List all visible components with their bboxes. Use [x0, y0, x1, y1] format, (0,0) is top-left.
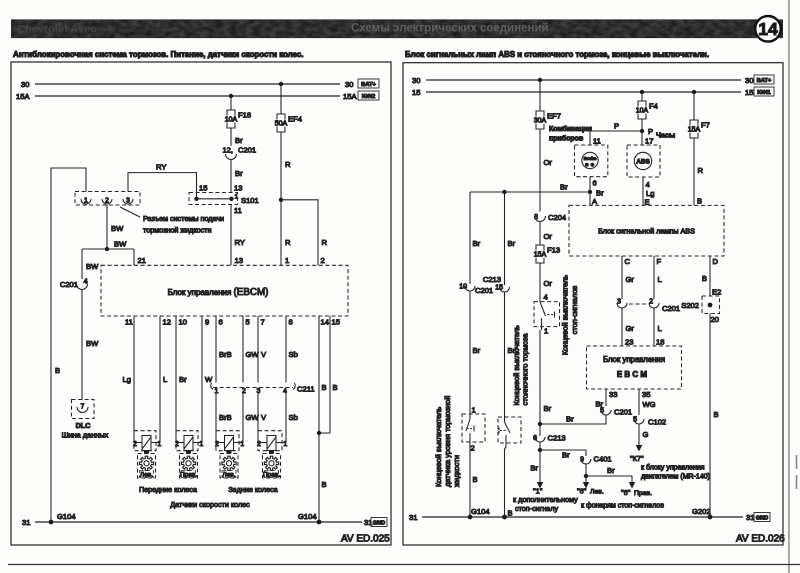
svg-text:Передние колеса: Передние колеса	[139, 485, 197, 494]
svg-text:"К7": "К7"	[630, 454, 644, 463]
svg-text:31: 31	[409, 513, 417, 522]
wire bus15 to F7	[693, 92, 695, 120]
wire fluid switch to G104, B	[470, 442, 478, 517]
svg-text:15A: 15A	[343, 92, 357, 101]
wire to EBCM pin 2, R	[281, 200, 328, 265]
svg-text:GW: GW	[246, 413, 260, 422]
svg-text:Or: Or	[544, 232, 553, 241]
svg-text:L: L	[658, 275, 662, 284]
svg-text:8: 8	[289, 318, 293, 327]
vertical label stop lamp switch	[561, 275, 580, 355]
svg-text:F: F	[657, 257, 662, 266]
svg-text:15A: 15A	[688, 127, 701, 134]
svg-text:BW: BW	[86, 339, 99, 348]
svg-text:R: R	[285, 238, 291, 247]
svg-text:Комбинация: Комбинация	[549, 125, 592, 133]
wire C213-15 to park switch, Br	[505, 293, 516, 418]
callout: Разъем системы подачи тормозной жидкости	[120, 207, 224, 235]
svg-text:15: 15	[412, 88, 420, 97]
IGN2 tag	[358, 91, 379, 100]
svg-text:30A: 30A	[534, 118, 547, 125]
svg-text:B: B	[473, 475, 478, 484]
connector C213 pin 6	[533, 434, 566, 443]
svg-text:W: W	[205, 375, 213, 384]
svg-text:31: 31	[746, 513, 754, 522]
svg-text:тормозной жидкости: тормозной жидкости	[143, 226, 211, 235]
junction bus15 F4	[640, 90, 644, 94]
svg-text:C213: C213	[483, 275, 501, 284]
svg-text:к дополнительному: к дополнительному	[513, 495, 578, 504]
svg-text:C201: C201	[662, 304, 680, 313]
svg-text:G104: G104	[298, 512, 317, 521]
svg-text:L: L	[658, 324, 662, 333]
svg-text:Sb: Sb	[289, 350, 298, 359]
wire EF7 down, Or	[540, 129, 552, 212]
svg-text:Схемы электрических соединений: Схемы электрических соединений	[351, 23, 549, 35]
wire brake lamp pin 6 down	[590, 177, 604, 206]
EBCM pin 7 wire, V	[258, 316, 267, 443]
svg-text:P: P	[614, 122, 619, 131]
svg-text:Лев.: Лев.	[140, 472, 153, 479]
svg-text:G104: G104	[471, 507, 490, 516]
GND tag (left)	[371, 518, 387, 527]
svg-text:2: 2	[321, 256, 325, 265]
svg-text:Br: Br	[562, 451, 570, 460]
svg-text:2: 2	[471, 444, 475, 453]
svg-text:G202: G202	[692, 507, 711, 516]
svg-text:Br: Br	[530, 464, 538, 473]
svg-text:V: V	[261, 413, 267, 422]
junction Br branch	[502, 190, 506, 194]
connector C201 pin 3	[617, 299, 627, 309]
wheel speed sensor front-left	[133, 431, 161, 454]
svg-text:C211: C211	[297, 385, 315, 394]
svg-text:7: 7	[261, 318, 265, 327]
svg-text:двигателем (MR-140): двигателем (MR-140)	[641, 474, 710, 481]
svg-text:30: 30	[345, 80, 353, 89]
svg-text:Or: Or	[544, 279, 553, 288]
brake warning lamp	[575, 145, 608, 177]
wire B: pin1 up, left, down to G104	[51, 168, 86, 520]
fluid level switch	[462, 406, 485, 453]
svg-text:Блок управления: Блок управления	[603, 355, 665, 364]
svg-text:15: 15	[745, 88, 753, 97]
connector C211	[211, 383, 315, 395]
splice S202	[681, 288, 721, 325]
ground bus 31 (left)	[22, 518, 372, 527]
svg-text:B: B	[508, 509, 513, 518]
brake fluid connector (dashed, pins 1-3)	[75, 192, 140, 206]
wire C201-10 to fluid switch, Br	[470, 292, 481, 415]
wheel rotor front-right	[180, 454, 198, 479]
svg-text:14: 14	[321, 318, 329, 327]
svg-text:Br: Br	[508, 239, 516, 248]
right panel border	[403, 63, 783, 545]
page edge mark	[796, 455, 798, 489]
junction Br at brake lamp wire	[588, 190, 592, 194]
svg-text:WG: WG	[643, 400, 656, 409]
label aux stop lamp	[513, 487, 578, 514]
connector C201 pin 12	[222, 146, 256, 160]
svg-text:E B C M: E B C M	[617, 370, 648, 379]
svg-text:S202: S202	[681, 301, 699, 310]
svg-text:3: 3	[257, 388, 261, 395]
svg-text:Разъем системы подачи: Разъем системы подачи	[143, 214, 224, 223]
svg-text:Прав.: Прав.	[634, 490, 652, 497]
wire F13 to stop lamp switch, Or	[540, 263, 552, 302]
svg-text:C102: C102	[648, 418, 666, 427]
wire park switch to ground, B	[505, 443, 513, 518]
svg-text:Chevrolet Aveo: Chevrolet Aveo	[17, 24, 97, 36]
svg-text:14: 14	[758, 19, 778, 39]
svg-text:Лев.: Лев.	[590, 489, 604, 496]
svg-text:ABS: ABS	[636, 159, 650, 166]
wire RY: pin3 up and over to S101	[128, 163, 197, 197]
svg-text:Br: Br	[607, 466, 615, 475]
connector C401 pin 9	[580, 450, 612, 464]
wire to EBCM pin 21	[134, 249, 146, 265]
stop lamp switch (Концевой выключатель стоп-сигналов)	[534, 293, 560, 336]
svg-text:10A: 10A	[225, 117, 238, 124]
junction on EF4 wire	[279, 198, 283, 202]
wire S101 to EBCM pin 13, RY	[231, 205, 245, 266]
fuse F18 10A	[225, 110, 251, 128]
label K7 engine control	[630, 454, 710, 481]
svg-text:приборов: приборов	[549, 135, 584, 143]
GND tag right	[754, 513, 770, 522]
svg-text:Шина данных: Шина данных	[62, 431, 109, 440]
svg-text:Sb: Sb	[289, 413, 298, 422]
svg-text:стоп-сигналу: стоп-сигналу	[515, 504, 558, 513]
svg-text:Прав.: Прав.	[180, 472, 197, 479]
EBCM pin 6 wire, BrB	[216, 316, 232, 443]
svg-text:F7: F7	[701, 121, 710, 130]
svg-text:B: B	[714, 410, 719, 419]
ground G104 right	[298, 512, 321, 524]
svg-text:"6": "6"	[621, 488, 631, 497]
wire 15A to F18	[230, 96, 232, 110]
vertical label fluid level switch	[434, 396, 461, 487]
svg-text:Задние колеса: Задние колеса	[228, 485, 277, 494]
wire ABS lamp pin 4 down, Lg	[643, 177, 654, 207]
label Комбинация приборов	[549, 125, 592, 143]
BAT+ tag	[358, 79, 379, 88]
ABS signal lamp block	[569, 205, 724, 256]
wheel speed sensor rear-right	[257, 431, 287, 454]
svg-text:Концевой выключатель: Концевой выключатель	[561, 275, 570, 355]
svg-text:Br: Br	[544, 404, 552, 413]
wire C213-6 node to C401	[540, 450, 586, 460]
bus 30 (left)	[21, 80, 353, 89]
svg-text:Прав.: Прав.	[263, 472, 280, 479]
svg-text:GND: GND	[373, 521, 385, 527]
svg-text:Датчики скорости колес: Датчики скорости колес	[170, 500, 250, 509]
svg-text:3: 3	[126, 198, 130, 205]
svg-text:жидкости: жидкости	[452, 455, 461, 487]
junction bus30 EF7	[538, 78, 542, 82]
svg-text:BW: BW	[86, 262, 99, 271]
wheel rotor rear-right	[263, 454, 281, 479]
svg-text:Br: Br	[560, 183, 568, 192]
svg-text:Lg: Lg	[123, 375, 131, 384]
EBCM pin 14 wire, B	[319, 316, 329, 522]
svg-text:12,: 12,	[222, 146, 233, 155]
svg-text:B: B	[55, 366, 60, 375]
fuse EF7 30A	[534, 111, 561, 129]
IGN1 tag	[754, 87, 774, 96]
svg-text:A: A	[592, 197, 598, 206]
svg-text:L: L	[163, 375, 167, 384]
svg-text:15A: 15A	[534, 252, 547, 259]
svg-text:1: 1	[84, 198, 88, 205]
wire bus30 to EF7	[539, 80, 541, 111]
svg-text:4: 4	[544, 293, 548, 302]
bus 30 (right)	[412, 76, 753, 85]
ground node parking switch	[502, 515, 507, 520]
svg-text:Концевой выключатель: Концевой выключатель	[434, 407, 443, 487]
svg-text:Блок сигнальной лампы ABS: Блок сигнальной лампы ABS	[598, 227, 695, 236]
svg-text:1: 1	[215, 388, 219, 395]
wire bus30 to EF4	[280, 84, 282, 114]
wire stop switch down, Br	[540, 330, 552, 436]
connector C204 pin 3	[534, 213, 566, 222]
junction bus15 F7	[692, 90, 696, 94]
svg-text:E2: E2	[712, 288, 721, 297]
svg-text:Br: Br	[235, 169, 243, 178]
EBCM pin 5 wire, GW	[243, 316, 259, 443]
svg-text:D: D	[713, 257, 719, 266]
header bar	[11, 19, 783, 38]
svg-text:13: 13	[235, 256, 243, 265]
arrow to left stop lamp	[583, 476, 590, 489]
block output C wire, Gr	[622, 256, 634, 299]
svg-text:Блок сигнальных ламп ABS и сто: Блок сигнальных ламп ABS и стояночного т…	[405, 50, 709, 59]
fuse F4 10A	[636, 101, 658, 119]
svg-text:стояночного тормоза: стояночного тормоза	[521, 333, 530, 406]
svg-text:50A: 50A	[275, 121, 288, 128]
junction pins 14/15	[317, 431, 321, 435]
svg-text:6: 6	[219, 318, 223, 327]
wire F18 to C201 pin12, Br	[231, 128, 243, 146]
wire BW C201-4 to DLC	[82, 290, 99, 400]
svg-text:11: 11	[125, 318, 133, 327]
wire Br down to C213-15	[505, 192, 516, 285]
dashed link C201 3-2	[629, 303, 647, 305]
svg-text:C401: C401	[594, 455, 612, 464]
svg-text:P: P	[648, 127, 653, 136]
node P	[640, 119, 653, 145]
svg-text:BW: BW	[111, 224, 124, 233]
wheel rotor front-left	[138, 454, 156, 479]
svg-text:9: 9	[205, 318, 209, 327]
svg-text:Gr: Gr	[626, 275, 635, 284]
wire Br down to C201-10	[470, 192, 481, 284]
svg-text:20: 20	[711, 315, 719, 324]
wheel speed sensor rear-left	[215, 431, 244, 454]
svg-text:IGN1: IGN1	[757, 90, 771, 96]
EBCM control module (left)	[101, 265, 348, 316]
fuse F13 15A	[534, 245, 560, 263]
svg-text:35: 35	[642, 390, 650, 399]
svg-text:Or: Or	[544, 158, 553, 167]
EBCM pin 9 wire, W	[202, 316, 213, 443]
svg-text:C213: C213	[548, 434, 566, 443]
junction below C213-6	[538, 443, 542, 453]
svg-text:11: 11	[593, 137, 601, 146]
svg-text:12: 12	[163, 318, 171, 327]
svg-text:IGN2: IGN2	[362, 94, 376, 100]
svg-text:R: R	[285, 160, 291, 169]
EBCM pin 10 wire, Br	[176, 316, 187, 443]
wire bus15 to F4	[641, 92, 643, 101]
svg-text:BAT+: BAT+	[361, 82, 376, 88]
svg-text:B: B	[322, 480, 327, 489]
wire C201-2 to EBCM 18, L	[654, 309, 664, 347]
svg-text:G: G	[643, 430, 649, 439]
svg-text:EF4: EF4	[288, 115, 302, 124]
svg-text:"6": "6"	[577, 487, 587, 496]
svg-text:B: B	[702, 274, 707, 283]
wire to EBCM pin 1, R	[281, 200, 291, 265]
DLC connector	[62, 400, 109, 440]
svg-text:к фонарям стоп-сигналов: к фонарям стоп-сигналов	[581, 503, 664, 510]
vertical label parking brake switch	[512, 325, 530, 405]
svg-text:F13: F13	[547, 246, 560, 255]
svg-text:Br: Br	[473, 346, 481, 355]
svg-text:Лев.: Лев.	[222, 472, 235, 479]
svg-text:1: 1	[235, 194, 239, 201]
page bottom border	[8, 564, 800, 566]
bus 15 (right)	[412, 88, 753, 97]
svg-text:Br: Br	[566, 415, 574, 424]
svg-text:C: C	[625, 257, 631, 266]
EBCM pin 33 wire, Br	[595, 389, 617, 409]
EBCM pin 35 wire, WG	[639, 389, 656, 415]
left panel border	[11, 62, 391, 545]
connector C201 pin 5	[600, 408, 632, 417]
svg-text:15A: 15A	[16, 92, 30, 101]
EBCM pin 15 wire, B	[319, 316, 340, 433]
svg-text:AV ED.025: AV ED.025	[341, 534, 390, 545]
svg-text:10: 10	[179, 318, 187, 327]
svg-text:BW: BW	[114, 240, 127, 249]
fuse F7 15A	[688, 120, 710, 138]
wire S202 to G202, B	[710, 314, 719, 518]
wire C204 to F13, Or	[540, 222, 552, 246]
wire C201-3 to EBCM 23, Gr	[622, 309, 634, 347]
page right border	[788, 0, 790, 573]
block output F wire, L	[654, 256, 662, 299]
svg-text:Br: Br	[179, 375, 187, 384]
svg-text:2: 2	[242, 388, 246, 395]
svg-text:7: 7	[81, 404, 85, 411]
wheel rotor rear-left	[220, 454, 238, 479]
wire P to brake lamp pin 11	[590, 122, 642, 146]
wire to auxiliary stop lamp, Br	[530, 450, 543, 489]
junction stop lamp feeds	[584, 465, 588, 479]
svg-text:DLC: DLC	[76, 421, 91, 430]
svg-text:Антиблокировочная система торм: Антиблокировочная система тормозов. Пита…	[13, 50, 304, 59]
junction stop switch / C201-5	[538, 422, 542, 426]
wire C201-5 to stop switch node, Br	[540, 415, 606, 425]
svg-text:B: B	[322, 383, 327, 392]
svg-text:C201: C201	[238, 146, 256, 155]
svg-text:Br: Br	[235, 136, 243, 145]
svg-text:4: 4	[283, 388, 287, 395]
svg-text:15: 15	[332, 318, 340, 327]
junction on bus 30	[279, 82, 283, 86]
wire BW to C201 pin4	[82, 249, 99, 279]
page number 14	[755, 16, 781, 42]
connector C201 pin 4	[60, 277, 88, 290]
svg-text:31: 31	[22, 518, 30, 527]
wire EF4 down, R	[281, 132, 291, 200]
parking brake switch	[498, 417, 521, 443]
connector C201 pin 10	[459, 284, 493, 296]
wire to right stop lamp, Br	[586, 466, 635, 489]
svg-text:1: 1	[544, 327, 548, 336]
EBCM pin 11 wire, Lg	[123, 316, 134, 443]
svg-text:23: 23	[625, 338, 633, 347]
svg-text:Часы: Часы	[656, 131, 675, 140]
svg-text:C201: C201	[60, 280, 78, 289]
bus 15A (left)	[16, 92, 357, 101]
wire Br horizontal	[470, 183, 590, 193]
svg-text:R: R	[322, 238, 328, 247]
svg-text:11: 11	[234, 206, 242, 215]
svg-text:BrB: BrB	[219, 413, 232, 422]
labels stop lamp arrows	[577, 487, 652, 498]
block output D wire, B	[702, 256, 719, 296]
svg-text:Br: Br	[473, 239, 481, 248]
svg-text:1: 1	[472, 406, 476, 415]
svg-text:17: 17	[645, 137, 653, 146]
svg-text:BAT+: BAT+	[757, 78, 772, 84]
svg-text:S101: S101	[241, 196, 259, 205]
svg-text:2: 2	[105, 198, 109, 205]
connector C213 pin 15	[483, 275, 510, 292]
EBCM pin 8 wire, Sb	[286, 316, 298, 443]
svg-text:C204: C204	[548, 213, 566, 222]
svg-text:BrB: BrB	[219, 350, 232, 359]
splice S101	[189, 184, 259, 216]
svg-text:30: 30	[21, 80, 29, 89]
svg-text:к блоку управления: к блоку управления	[641, 464, 705, 472]
svg-text:F4: F4	[649, 102, 658, 111]
junction on bus 15A	[229, 94, 233, 98]
svg-text:RY: RY	[235, 238, 245, 247]
svg-text:Блок управления (EBCM): Блок управления (EBCM)	[168, 287, 269, 298]
svg-text:C201: C201	[475, 286, 493, 295]
svg-text:G104: G104	[57, 512, 76, 521]
junction BW	[82, 240, 134, 252]
connector C201 pin 2	[649, 299, 680, 314]
EBCM pin 12 wire, L	[160, 316, 171, 443]
svg-text:33: 33	[609, 390, 617, 399]
wire C201-12 to S101, Br	[231, 160, 243, 194]
svg-text:B: B	[697, 197, 702, 206]
svg-text:4: 4	[646, 180, 650, 189]
svg-text:15: 15	[199, 184, 207, 193]
svg-text:Gr: Gr	[626, 324, 635, 333]
svg-text:RY: RY	[156, 163, 166, 172]
ground G104 left	[49, 512, 76, 524]
svg-text:стоп-сигналов: стоп-сигналов	[570, 286, 579, 335]
svg-text:1: 1	[285, 256, 289, 265]
svg-text:F18: F18	[238, 111, 251, 120]
svg-text:V: V	[261, 350, 267, 359]
svg-text:датчика уровня тормозной: датчика уровня тормозной	[443, 396, 452, 487]
